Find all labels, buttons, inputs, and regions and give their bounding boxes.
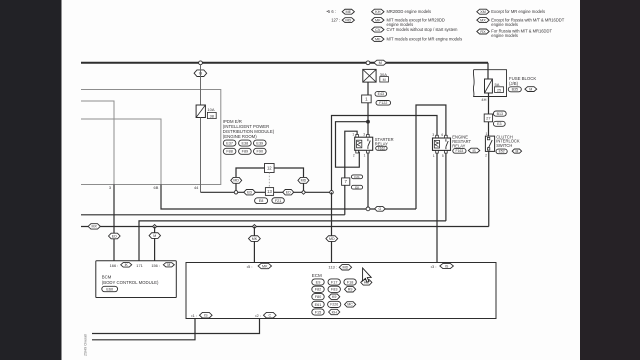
clutch interlock switch contact	[487, 137, 492, 150]
svg-text:6B: 6B	[154, 185, 159, 190]
ECM oval F17	[328, 279, 340, 285]
engine restart relay code IS	[468, 148, 479, 153]
BCM label	[102, 275, 159, 285]
wire connector 7 down to line B	[344, 185, 346, 215]
ECM code HB	[361, 280, 372, 285]
svg-text:XM: XM	[480, 10, 486, 14]
svg-text:1: 1	[352, 132, 354, 136]
svg-text:B35: B35	[512, 88, 518, 92]
wire ECM pin 1 to page edge	[92, 319, 195, 340]
ECM pin 113	[328, 265, 337, 270]
svg-text:K9: K9	[332, 295, 337, 299]
svg-text:MK: MK	[375, 18, 381, 22]
svg-text:MD: MD	[343, 266, 349, 270]
svg-text:ED: ED	[286, 190, 291, 194]
fuse 10A IPDM	[196, 105, 205, 118]
ECM code IS top	[440, 263, 454, 268]
fuse 5A	[485, 79, 493, 93]
wire restart relay contact top bridge	[416, 105, 446, 209]
connector oval E8 lower	[351, 185, 362, 189]
connector oval F21 upper	[351, 175, 362, 179]
svg-text:1: 1	[433, 154, 435, 158]
ECM oval F80	[312, 294, 324, 300]
BCM code IK	[121, 263, 132, 268]
ECM oval F82	[312, 286, 324, 292]
svg-text:27: 27	[486, 115, 491, 120]
code MD left	[231, 177, 242, 183]
ECM oval F226	[328, 301, 341, 307]
wire D BCM 171 run	[139, 221, 446, 261]
ECM code IS bottom	[200, 312, 213, 318]
svg-text:F18: F18	[347, 280, 354, 284]
svg-text:2SH9 Overall: 2SH9 Overall	[84, 334, 88, 356]
ECM code MC	[345, 302, 356, 307]
starter relay coil symbol	[357, 140, 362, 148]
svg-text:156 :: 156 :	[151, 263, 160, 268]
svg-text:MD: MD	[329, 237, 335, 241]
svg-text:1: 1	[364, 153, 366, 157]
svg-text:F82: F82	[315, 288, 322, 292]
svg-text:M: M	[529, 87, 532, 91]
svg-text:B13: B13	[497, 112, 503, 116]
IPDM pin label 6B	[154, 185, 159, 190]
wire A relay feed run	[161, 185, 416, 210]
engine restart relay contact symbol	[446, 139, 448, 149]
svg-text:MX: MX	[92, 225, 98, 229]
junction dot starter relay feed	[366, 120, 370, 124]
wire 5A fuse to connector 27	[488, 93, 490, 136]
engine restart relay label	[452, 135, 471, 149]
svg-text:RELAY: RELAY	[452, 144, 465, 149]
ECM oval E61	[312, 301, 324, 307]
clutch switch code M	[512, 149, 521, 153]
engine restart relay pin numbers	[432, 133, 443, 158]
legend code RX	[477, 28, 553, 37]
svg-text:166 :: 166 :	[110, 263, 119, 268]
starter relay oval F162	[376, 146, 387, 150]
svg-text:M: M	[515, 149, 518, 153]
svg-text:ME: ME	[345, 10, 351, 14]
svg-text:E38: E38	[242, 141, 249, 145]
connector oval B13	[493, 111, 506, 116]
IPDM E/R label	[223, 119, 275, 139]
svg-text:E60: E60	[106, 287, 113, 291]
BCM pin 166	[110, 263, 119, 268]
node junction 113 wire	[330, 191, 334, 195]
legend note 127 MD	[331, 18, 354, 23]
engine restart relay box	[433, 138, 451, 150]
code M on BCM 156 wire	[149, 233, 160, 239]
wire ECM pin 113 drop	[331, 192, 333, 262]
wire starter relay coil loop	[336, 122, 369, 168]
wire starter relay coil top to connector 7	[345, 131, 357, 178]
svg-text:engine models: engine models	[491, 22, 518, 27]
svg-text:12: 12	[267, 166, 272, 171]
code ED right	[283, 190, 294, 195]
IPDM E/R box outline	[81, 90, 221, 185]
svg-text:G: G	[379, 207, 382, 211]
svg-text:M/T models except for MR engin: M/T models except for MR engine models	[387, 37, 463, 42]
wire connector 1 to starter relay	[367, 103, 369, 137]
fuse block oval B35	[508, 87, 521, 92]
node diamond E/BCM156	[153, 225, 157, 229]
wire fusible link to connector 1	[367, 82, 369, 95]
starter relay pin numbers	[352, 132, 365, 157]
wire ED line pin44 to node	[201, 191, 332, 193]
wire B starter coil run	[81, 214, 345, 216]
svg-text:13: 13	[267, 189, 272, 194]
wire node 192 up to engine restart relay coil	[332, 116, 438, 193]
label 30A	[380, 72, 387, 77]
svg-text:171: 171	[136, 263, 143, 268]
svg-text:F80: F80	[315, 295, 322, 299]
BCM pin 171	[136, 263, 143, 268]
svg-text:10A: 10A	[207, 107, 214, 112]
connector oval F122	[376, 101, 391, 106]
clutch interlock switch box	[485, 136, 494, 151]
svg-text:•1 :: •1 :	[191, 313, 197, 318]
fuse number box 38	[207, 112, 216, 118]
engine restart relay oval F163	[453, 149, 466, 154]
code MD right	[298, 177, 309, 183]
legend note •5 6 ME	[327, 9, 355, 14]
engine restart relay pin squares	[436, 135, 448, 153]
fusible link 30A	[363, 69, 376, 82]
BCM box	[96, 261, 177, 298]
wire IPDM pin 3 to BCM 166	[113, 185, 115, 261]
svg-text:F163: F163	[456, 149, 464, 153]
node bus / 10A fuse tap	[199, 61, 203, 65]
ECM pin 2 bottom	[255, 313, 261, 318]
svg-text:E61: E61	[315, 303, 322, 307]
code ED left	[244, 190, 256, 195]
ECM oval F18	[344, 279, 356, 285]
legend code KH	[372, 9, 432, 14]
svg-text:MK: MK	[262, 264, 268, 268]
svg-text:38: 38	[210, 114, 214, 118]
svg-text:3: 3	[363, 132, 365, 136]
starter relay pin squares	[356, 135, 369, 154]
label 5A	[495, 82, 500, 87]
svg-text:3: 3	[432, 133, 434, 137]
svg-text:F83: F83	[331, 288, 338, 292]
svg-text:•3 :: •3 :	[431, 264, 437, 269]
starter relay label	[375, 137, 394, 147]
connector oval E43	[375, 92, 387, 97]
svg-text:engine models: engine models	[491, 33, 518, 38]
connector pin box 27 (B13/E3)	[484, 114, 492, 122]
BCM code M	[163, 263, 174, 267]
wire branch 12 upper path	[236, 168, 304, 192]
starter relay U1 box	[355, 137, 373, 150]
svg-text:E37: E37	[226, 141, 233, 145]
engine restart relay coil symbol	[434, 140, 439, 148]
svg-text:F122: F122	[379, 101, 387, 105]
wire fuse 10A to pin 44	[200, 118, 202, 193]
node diamond E/ECM5	[252, 225, 256, 229]
svg-text:•5 6 :: •5 6 :	[327, 9, 336, 14]
code ED on BCM 166 wire	[109, 233, 121, 239]
svg-text:2: 2	[485, 154, 487, 158]
svg-text:3: 3	[109, 185, 111, 190]
svg-text:(J/B): (J/B)	[509, 81, 519, 86]
wire bus to fuse block	[487, 63, 489, 79]
svg-text:R9: R9	[348, 288, 353, 292]
connector oval E8 below 13	[255, 198, 268, 204]
svg-text:MD: MD	[345, 18, 351, 22]
svg-text:C: C	[268, 314, 271, 318]
connector pin box 12	[265, 164, 275, 173]
node diamond right of 13	[302, 190, 306, 194]
code G	[375, 206, 386, 211]
pin label 1 clutch switch	[486, 132, 488, 136]
ECM oval F83	[328, 286, 340, 292]
svg-text:KH: KH	[375, 10, 381, 14]
code MK on ECM 5 wire	[249, 236, 261, 242]
svg-text:•2 :: •2 :	[255, 313, 261, 318]
connector pin box 13	[265, 188, 273, 196]
svg-text:M: M	[379, 61, 382, 65]
IPDM pin label 3	[109, 185, 111, 190]
wire starter relay contact bottom to G node	[367, 153, 369, 209]
ECM pin 3	[431, 264, 437, 269]
svg-text:F21: F21	[275, 199, 282, 203]
svg-text:2: 2	[353, 153, 355, 157]
battery power bus wire	[81, 62, 488, 64]
svg-text:F15: F15	[315, 310, 322, 314]
node bus / fusible link tap	[366, 61, 370, 65]
svg-text:4H: 4H	[481, 97, 486, 102]
legend code MX	[477, 18, 565, 27]
label 10A	[207, 107, 214, 112]
wire IPDM pin 3 branch	[81, 101, 114, 185]
wire clutch switch to line E	[488, 151, 490, 226]
ECM box	[186, 263, 496, 319]
wire BCM 156 drop	[154, 227, 156, 261]
svg-text:F89: F89	[242, 150, 249, 154]
wire E MX run	[81, 226, 489, 228]
legend code ME	[372, 37, 463, 42]
ECM code RX	[345, 287, 356, 292]
BCM pin 156	[151, 263, 160, 268]
svg-text:30A: 30A	[380, 72, 387, 77]
wire restart relay contact bottom to line D	[445, 153, 447, 221]
wire bus node to fuse 10A	[200, 65, 202, 105]
svg-text:F162: F162	[378, 146, 385, 150]
IPDM pin label 44	[194, 185, 199, 190]
IPDM connector ovals F88 F89 F90	[223, 148, 266, 154]
svg-text:CV: CV	[375, 28, 381, 32]
svg-text:MK: MK	[252, 237, 258, 241]
ECM label	[312, 273, 322, 278]
svg-text:5A: 5A	[495, 82, 500, 87]
wire restart relay coil bottom to ECM pin 3	[436, 153, 438, 263]
wire ECM pin 2 to page edge	[92, 319, 260, 334]
wire IPDM pin 6B branch	[81, 119, 161, 185]
svg-text:F88: F88	[226, 150, 233, 154]
svg-text:ED: ED	[247, 190, 252, 194]
ECM pin 1 bottom	[191, 313, 197, 318]
ECM code MK top	[258, 263, 271, 268]
connector oval E3	[493, 121, 505, 126]
svg-text:E9: E9	[316, 280, 321, 284]
node circle left of 13	[234, 191, 237, 194]
pin label 4H	[481, 97, 486, 102]
connector oval F21 below 13	[272, 198, 284, 204]
left letterbox bar	[0, 0, 62, 360]
svg-text:E43: E43	[378, 92, 384, 96]
svg-text:SWITCH: SWITCH	[496, 143, 512, 148]
svg-text:M: M	[383, 78, 386, 82]
svg-text:E3: E3	[497, 122, 501, 126]
fuse block label	[509, 76, 536, 86]
IPDM connector ovals E37 E38 E39	[223, 140, 266, 146]
svg-text:(BODY CONTROL MODULE): (BODY CONTROL MODULE)	[102, 280, 159, 285]
svg-text:Except for MR engine models: Except for MR engine models	[491, 9, 545, 14]
ECM code KH	[329, 309, 340, 314]
svg-text:MX: MX	[480, 18, 486, 22]
svg-text:MD: MD	[233, 179, 239, 183]
clutch switch oval E52	[496, 149, 507, 154]
svg-text:F90: F90	[257, 150, 264, 154]
svg-text:113 :: 113 :	[328, 265, 337, 270]
ECM code MD top	[339, 265, 351, 270]
wire ECM pin 5 drop	[253, 227, 255, 263]
svg-text:E39: E39	[256, 141, 263, 145]
svg-text:M: M	[167, 263, 170, 267]
ECM code C bottom	[264, 312, 277, 318]
ECM oval E9	[312, 279, 324, 285]
clutch interlock switch label	[496, 134, 520, 148]
starter relay contact symbol	[368, 139, 370, 149]
svg-text:F226: F226	[330, 303, 338, 307]
svg-text:25: 25	[497, 88, 501, 92]
svg-text:(ENGINE ROOM): (ENGINE ROOM)	[223, 134, 257, 139]
legend code MK	[372, 18, 445, 27]
svg-text:F17: F17	[331, 280, 338, 284]
svg-text:CVT models without stop / star: CVT models without stop / start system	[387, 27, 458, 32]
svg-text:IS: IS	[204, 314, 208, 318]
legend code CV	[372, 27, 458, 32]
svg-text:E52: E52	[499, 150, 505, 154]
ECM oval F15	[312, 309, 324, 315]
svg-text:•5 :: •5 :	[247, 264, 253, 269]
node G splice	[366, 207, 370, 211]
svg-text:E8: E8	[355, 185, 359, 189]
sheet label 2SH9 Overall	[84, 334, 88, 356]
svg-text:MR20DD engine models: MR20DD engine models	[387, 9, 432, 14]
code MX	[88, 224, 100, 229]
ECM code K9	[329, 294, 340, 299]
svg-text:F21: F21	[354, 175, 360, 179]
svg-text:MD: MD	[301, 179, 307, 183]
fuse number box 25	[495, 87, 504, 93]
code M on bus	[374, 60, 386, 65]
fuse block J/B outline	[473, 70, 506, 97]
right letterbox bar	[580, 0, 640, 360]
BCM oval E60	[102, 286, 118, 291]
mouse cursor	[363, 268, 372, 282]
svg-text:127 :: 127 :	[331, 18, 340, 23]
svg-text:6: 6	[441, 133, 443, 137]
svg-text:RX: RX	[480, 30, 486, 34]
svg-text:KH: KH	[332, 310, 337, 314]
svg-text:IS: IS	[445, 264, 449, 268]
svg-text:ECM: ECM	[312, 273, 322, 278]
svg-text:5: 5	[442, 154, 444, 158]
pin label 2 clutch switch	[485, 154, 487, 158]
svg-text:E8: E8	[259, 199, 264, 203]
ECM pin 5	[247, 264, 253, 269]
fusible link letter box M	[380, 77, 389, 82]
svg-text:ED: ED	[112, 234, 117, 238]
legend code XM	[477, 9, 545, 14]
svg-text:M: M	[153, 234, 156, 238]
connector pin box 7 (F21/E8)	[342, 178, 350, 185]
svg-text:MC: MC	[347, 303, 353, 307]
code IB on 10A drop	[194, 70, 207, 77]
code MD on ECM 113 wire	[326, 236, 338, 242]
dashed link 12-13	[268, 173, 270, 188]
svg-text:1: 1	[486, 132, 488, 136]
connector pin box 1 (E43/F122)	[362, 95, 372, 103]
fuse block code M	[525, 87, 537, 92]
svg-text:ME: ME	[375, 37, 381, 41]
